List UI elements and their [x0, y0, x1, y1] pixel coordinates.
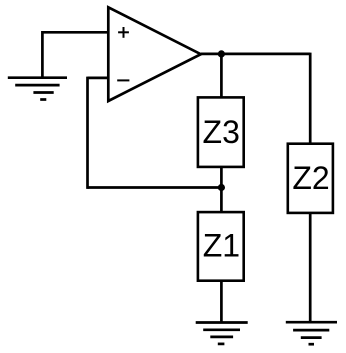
wire: feedback node to Z1 [220, 188, 223, 213]
wire: Z2 branch vertical down to Z2 [309, 53, 312, 144]
svg-text:Z2: Z2 [292, 160, 329, 196]
node: feedback junction dot [218, 184, 225, 191]
wire: Z3 to feedback node [220, 167, 223, 188]
wire: feedback, vertical down from inverting input [86, 77, 89, 189]
wire: Z2 down to ground [309, 213, 312, 322]
wire: non-inverting input to ground, horizontal [42, 31, 108, 34]
impedance Z3 (box) [198, 97, 244, 166]
wire: output node down to Z3 [220, 54, 223, 98]
wire: feedback, horizontal to node between Z3 and Z1 [88, 186, 222, 189]
ground (below Z2) [286, 322, 337, 344]
node: output junction dot [218, 50, 225, 57]
wire: non-inverting input to ground, vertical [41, 31, 44, 78]
op-amp U1 inverting (-) input marker [117, 79, 129, 81]
ground (below Z1) [196, 323, 248, 344]
impedance Z2 (box) [288, 144, 333, 213]
op-amp U1 [108, 7, 201, 101]
ground (at non-inverting input) [8, 78, 67, 100]
wire: Z1 down to ground [220, 281, 223, 323]
impedance Z1 (box) [198, 212, 244, 281]
wire: inverting input stub, horizontal [88, 77, 109, 80]
svg-text:Z1: Z1 [203, 227, 240, 263]
svg-text:Z3: Z3 [203, 114, 240, 150]
op-amp U1 non-inverting (+) input marker [118, 27, 129, 38]
wire: op-amp output to Z2 branch, horizontal [201, 53, 310, 56]
